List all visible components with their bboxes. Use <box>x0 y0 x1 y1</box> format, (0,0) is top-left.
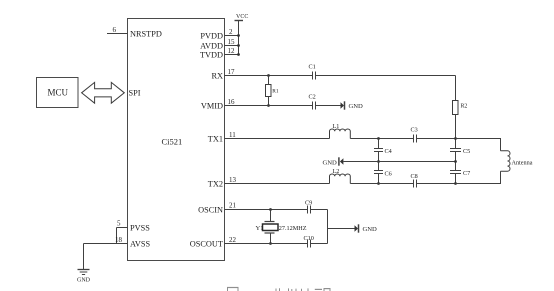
svg-text:17: 17 <box>228 68 236 76</box>
resistor R2 <box>453 101 459 115</box>
svg-text:Antenna: Antenna <box>512 159 533 166</box>
wire GND line down to C6 <box>378 162 380 171</box>
wire antenna bottom <box>456 171 501 183</box>
wire C2 to GND tag <box>316 105 341 107</box>
capacitor C5 plates <box>450 148 461 150</box>
junction dot PVDD <box>237 34 240 37</box>
pin OSCIN wire <box>225 209 308 211</box>
svg-text:R2: R2 <box>461 104 468 110</box>
svg-text:C3: C3 <box>411 127 418 134</box>
svg-text:18: 18 <box>115 236 123 244</box>
junction dot GND line right <box>454 160 457 163</box>
svg-text:C4: C4 <box>385 148 392 155</box>
junction dot GND line left <box>377 160 380 163</box>
pin AVDD stub wire <box>225 45 239 47</box>
svg-text:2: 2 <box>229 28 233 36</box>
svg-text:L1: L1 <box>333 123 340 130</box>
capacitor C6 plates <box>374 170 383 172</box>
svg-text:27.12MHZ: 27.12MHZ <box>279 225 307 232</box>
capacitor C1 plates <box>312 72 314 80</box>
IC U1 body Ci521 <box>128 19 225 261</box>
capacitor C10 plates <box>307 240 309 248</box>
pin NRSTPD wire <box>107 33 128 35</box>
junction dot R1 bottom <box>267 104 270 107</box>
svg-text:C8: C8 <box>411 173 418 180</box>
wire RX right segment <box>316 75 456 77</box>
caption fragment: top of Chinese figure caption (cut off) <box>227 288 331 291</box>
junction dot AVDD <box>237 44 240 47</box>
junction dot crystal bottom <box>269 242 272 245</box>
ground earth symbol bottom left <box>78 269 90 271</box>
svg-text:PVDD: PVDD <box>200 32 223 41</box>
svg-text:NRSTPD: NRSTPD <box>130 30 162 39</box>
svg-text:R1: R1 <box>272 89 279 95</box>
junction dot R1 top <box>267 74 270 77</box>
wire C10 to right vertical <box>311 243 328 245</box>
wire C9 to right vertical <box>311 209 328 211</box>
svg-text:PVSS: PVSS <box>130 224 150 233</box>
pin PVSS wire <box>117 227 128 229</box>
svg-text:C7: C7 <box>463 170 470 177</box>
wire R1 top lead <box>268 76 270 85</box>
svg-text:16: 16 <box>228 98 236 106</box>
svg-text:C5: C5 <box>463 148 470 155</box>
svg-text:C10: C10 <box>304 235 314 242</box>
wire crystal bottom lead <box>270 233 272 244</box>
wire C3 to right column <box>417 138 456 140</box>
capacitor C8 plates <box>413 180 415 188</box>
svg-text:VCC: VCC <box>236 14 248 20</box>
svg-text:11: 11 <box>229 131 236 139</box>
pin AVSS wire <box>84 243 128 245</box>
svg-text:RX: RX <box>211 72 223 81</box>
wire node A vertical upper (to C4) <box>378 139 380 149</box>
inductor L1 <box>330 129 351 139</box>
svg-text:C2: C2 <box>309 94 316 101</box>
svg-text:AVDD: AVDD <box>200 42 223 51</box>
svg-text:OSCOUT: OSCOUT <box>190 240 223 249</box>
GND tag at VMID: arrow and bar <box>341 102 345 108</box>
svg-text:Ci521: Ci521 <box>162 137 183 147</box>
svg-text:13: 13 <box>229 176 237 184</box>
svg-text:12: 12 <box>228 47 236 55</box>
pin VMID wire left segment <box>225 105 313 107</box>
wire R1 bottom lead <box>268 97 270 106</box>
capacitor C2 plates <box>312 102 314 110</box>
capacitor C7 plates <box>450 170 461 172</box>
pin RX wire left segment <box>225 75 313 77</box>
junction dot crystal top <box>269 208 272 211</box>
junction dot TVDD <box>237 53 240 56</box>
wire PVSS to AVSS vertical <box>116 228 118 244</box>
wire C7 to TX2 line <box>455 174 457 184</box>
wire L1 to node A <box>350 138 413 140</box>
wire L2 to C8 <box>350 183 413 185</box>
GND tag oscillator: arrow and bar <box>355 225 359 231</box>
MCU box <box>37 78 79 108</box>
SPI bidirectional arrow <box>82 82 125 103</box>
wire R2 to C3 node <box>455 115 457 149</box>
svg-text:L2: L2 <box>333 168 340 175</box>
pin TVDD stub wire <box>225 54 239 56</box>
svg-text:GND: GND <box>349 103 364 110</box>
svg-text:TX2: TX2 <box>208 180 223 189</box>
svg-text:TX1: TX1 <box>208 135 223 144</box>
wire oscillator right vertical <box>327 210 329 244</box>
capacitor C9 plates <box>307 206 309 214</box>
crystal Y1 bottom plate <box>265 232 275 234</box>
pin OSCOUT wire <box>225 243 308 245</box>
junction dot C3 node <box>454 137 457 140</box>
antenna coil <box>501 151 510 171</box>
capacitor C4 plates <box>374 148 383 150</box>
svg-text:GND: GND <box>363 226 378 233</box>
svg-text:21: 21 <box>229 202 237 210</box>
wire C6 to TX2 line <box>378 174 380 184</box>
junction dot TX2/C6 <box>377 182 380 185</box>
svg-text:AVSS: AVSS <box>130 240 151 249</box>
svg-text:TVDD: TVDD <box>200 51 223 60</box>
power VCC bar <box>235 20 244 22</box>
resistor R1 <box>266 85 272 97</box>
svg-text:Y1: Y1 <box>256 225 264 232</box>
crystal Y1 top plate <box>265 221 275 223</box>
capacitor C3 plates <box>413 135 415 143</box>
crystal Y1 body <box>263 224 279 231</box>
wire C8 to right column <box>417 183 456 185</box>
pin TX2 wire <box>225 183 330 185</box>
junction dot node A TX1/C4 <box>377 137 380 140</box>
wire C4 to GND line <box>378 152 380 162</box>
svg-text:22: 22 <box>229 236 237 244</box>
svg-text:MCU: MCU <box>48 88 69 98</box>
wire AVSS down to ground <box>83 244 85 270</box>
pin TX1 wire <box>225 138 330 140</box>
GND tag mid: bar and arrow <box>338 157 340 165</box>
svg-text:5: 5 <box>117 220 121 228</box>
wire GND line horizontal <box>343 161 455 163</box>
inductor L2 <box>330 174 351 184</box>
wire C5 to GND node <box>455 152 457 171</box>
svg-text:15: 15 <box>228 38 236 46</box>
svg-text:SPI: SPI <box>129 88 141 97</box>
svg-text:C9: C9 <box>305 200 312 207</box>
wire RX corner vertical to R2 <box>455 76 457 101</box>
pin PVDD stub wire <box>225 35 239 37</box>
wire VCC vertical <box>238 21 240 55</box>
svg-text:C1: C1 <box>309 64 316 71</box>
svg-text:OSCIN: OSCIN <box>198 205 223 214</box>
svg-text:6: 6 <box>113 26 117 34</box>
wire to GND tag oscillator <box>328 228 355 230</box>
svg-text:GND: GND <box>77 278 91 284</box>
wire crystal top lead <box>270 210 272 222</box>
wire antenna top <box>456 139 501 151</box>
junction dot TX2 right <box>454 182 457 185</box>
svg-text:VMID: VMID <box>201 102 223 111</box>
svg-text:GND: GND <box>323 160 338 167</box>
svg-text:C6: C6 <box>385 170 392 177</box>
